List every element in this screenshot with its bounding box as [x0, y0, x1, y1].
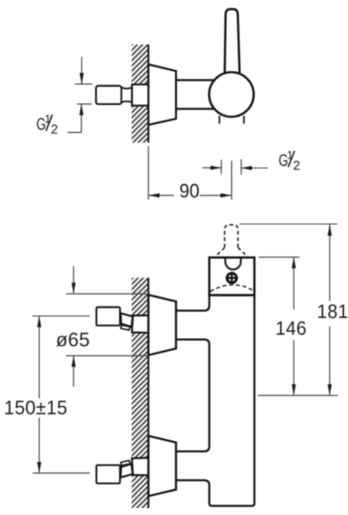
dimension 90: extension lines — [147, 146, 149, 200]
arrow down to pipe top — [81, 57, 83, 84]
union tilted middle (upper) — [121, 313, 133, 327]
label 150 plus-minus 15 — [5, 401, 66, 415]
wall face line (side view) — [147, 45, 149, 143]
union neck (side view) — [121, 87, 132, 102]
escutcheon cone (front view, upper) — [148, 295, 176, 355]
hidden dome arc (dashed) — [210, 285, 254, 292]
union nut (upper) — [96, 307, 120, 325]
escutcheon cone (front view, lower) — [148, 436, 176, 496]
mixer body with inlet necks (front view) — [176, 295, 254, 506]
mixer body cylinder (side view) — [176, 79, 217, 81]
union flap (upper) — [121, 325, 130, 330]
label 181 — [318, 304, 347, 318]
union nut (lower) — [96, 465, 120, 483]
mixer valve body circle (side view) — [209, 72, 254, 117]
dimension 90 line and arrows — [148, 194, 174, 196]
union wall piece (upper) — [132, 315, 149, 333]
cartridge housing (front view) — [209, 258, 254, 296]
extension line from shaft top — [240, 223, 337, 225]
label dia65 — [56, 333, 89, 347]
set screw — [227, 273, 237, 283]
extension line from cartridge top — [258, 256, 299, 258]
lever shaft hidden (dashed, front view) — [225, 225, 238, 248]
dimension 181 — [329, 225, 331, 301]
union wall piece (lower) — [132, 458, 149, 476]
escutcheon cone (side view) — [148, 64, 176, 125]
wall hatching (front view) — [132, 278, 149, 508]
wall face line (front view) — [147, 278, 149, 508]
label G1/2 (right) — [279, 154, 287, 166]
cartridge dome — [225, 258, 241, 270]
shared bottom extension line (mid axis) — [258, 394, 338, 396]
lever handle (side view) — [225, 9, 240, 74]
union wall piece (side view) — [132, 85, 148, 106]
dimension 150±15 — [32, 315, 89, 317]
union tilted middle (lower) — [121, 464, 133, 478]
wall hatching (side view) — [132, 45, 149, 143]
shower outlet legs (side view) — [218, 116, 220, 124]
arrow up to pipe bottom with leader — [68, 104, 82, 132]
label 146 — [277, 321, 306, 335]
dimension dia 65 ticks — [66, 293, 148, 295]
lower inlet union — [96, 458, 148, 484]
dimension: pipe G1/2 ticks (side view) — [75, 83, 93, 85]
supply union nut (side view) — [96, 86, 121, 104]
dimension 146 — [293, 257, 295, 310]
dimension: outlet G1/2 ticks (side view) — [220, 160, 222, 174]
label 90 — [180, 184, 199, 198]
label G1/2 (left) — [37, 118, 45, 130]
upper inlet union — [96, 307, 148, 333]
union flap (lower) — [121, 461, 130, 466]
